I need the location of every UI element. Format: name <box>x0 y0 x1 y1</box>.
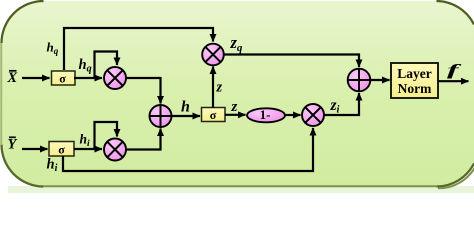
sigma block (fusion gate) <box>202 108 226 123</box>
wire: loop into multiplier1 top <box>95 52 118 78</box>
wire: adder2 to Layer Norm <box>370 79 389 81</box>
wire: sigma1 to multiplier1 <box>74 77 102 79</box>
svg-text:h: h <box>181 99 190 116</box>
wire: h_i bottom rail into z_i multiplier bottom <box>63 128 313 171</box>
wire: sigma2 to multiplier2 <box>74 148 102 150</box>
input label X bar <box>7 70 18 86</box>
block 1- (one minus) <box>247 107 285 122</box>
svg-text:Norm: Norm <box>398 81 432 96</box>
background panel (rounded rectangle with shadow) <box>1 1 474 193</box>
svg-text:X: X <box>7 70 18 86</box>
svg-text:1-: 1- <box>260 107 271 122</box>
multiplier z_q <box>202 44 224 66</box>
svg-text:Layer: Layer <box>397 66 432 81</box>
wire: multiplier2 to adder1 bottom <box>126 129 161 150</box>
wire: sigma3 top to z_q multiplier bottom <box>212 67 214 108</box>
svg-text:σ: σ <box>58 143 65 157</box>
wire: Layer Norm to output f <box>438 80 469 82</box>
sigma block (info) <box>49 142 74 157</box>
wire: adder1 to sigma3 <box>172 115 201 117</box>
wire: sigma3 to 1- block <box>225 114 246 116</box>
svg-text:Y: Y <box>8 137 18 153</box>
wire: Ybar to sigma2 <box>22 148 48 150</box>
wire: z_i to adder2 bottom <box>324 93 359 115</box>
adder A1 <box>150 105 172 127</box>
multiplier z_i <box>302 104 324 126</box>
svg-text:σ: σ <box>59 72 66 86</box>
svg-text:z: z <box>231 99 238 115</box>
svg-text:σ: σ <box>210 108 217 122</box>
adder A2 <box>348 69 371 92</box>
block Layer Norm <box>391 63 438 98</box>
input label Y bar <box>8 137 18 153</box>
svg-text:z: z <box>216 80 223 96</box>
multiplier M2 <box>104 139 126 161</box>
wire: 1- to z_i multiplier <box>285 114 301 116</box>
wire: z_q to adder2 top <box>224 55 359 68</box>
sigma block (query) <box>52 71 76 86</box>
wire: multiplier1 to adder1 top <box>126 78 161 104</box>
multiplier M1 <box>104 67 126 89</box>
wire: loop into multiplier2 top <box>95 122 118 148</box>
wire: Xbar to sigma1 <box>22 77 50 79</box>
wire: h_q up over top rail into z_q multiplier top <box>64 28 213 70</box>
